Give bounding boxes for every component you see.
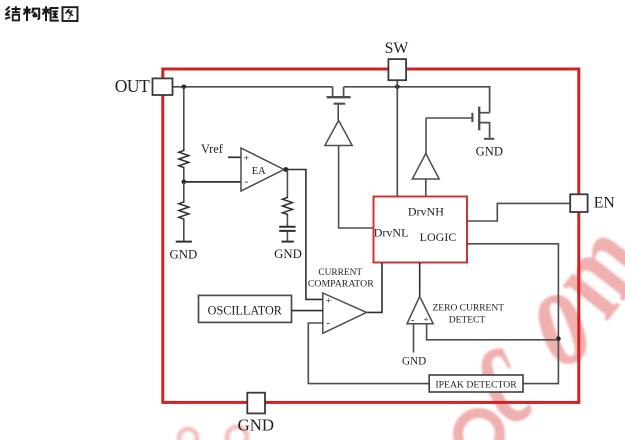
- svg-text:-: -: [326, 317, 330, 329]
- svg-text:+: +: [244, 153, 250, 164]
- wire OUT rail: [173, 86, 333, 88]
- svg-text:DETECT: DETECT: [449, 315, 486, 325]
- wire divider from OUT: [183, 87, 185, 149]
- wire DrvNL: [339, 146, 374, 229]
- svg-text:OUT: OUT: [115, 76, 150, 96]
- title 结构框图 (hand drawn): [5, 6, 77, 21]
- op-amp U1 EA: [241, 148, 284, 191]
- wire EA out: [284, 170, 323, 300]
- svg-text:SW: SW: [385, 40, 409, 57]
- svg-text:EA: EA: [252, 166, 266, 177]
- wire EN lower / right net: [467, 244, 558, 384]
- red border frame: [163, 69, 579, 402]
- resistor R1: [179, 149, 189, 170]
- svg-text:+: +: [424, 315, 429, 325]
- wire U5 plus: [427, 324, 559, 340]
- wire U3 input: [425, 179, 427, 197]
- node EA out: [284, 167, 289, 172]
- svg-text:EN: EN: [594, 194, 616, 211]
- wire OSC to comparator: [292, 310, 323, 312]
- wire R1 to node: [183, 169, 185, 182]
- svg-text:-: -: [245, 176, 249, 188]
- box OSCILLATOR: [199, 295, 292, 322]
- node right net junction: [556, 336, 561, 341]
- wire node to R2: [183, 182, 185, 201]
- svg-text:COMPARATOR: COMPARATOR: [308, 278, 374, 289]
- op-amp U4 current comparator: [323, 293, 367, 333]
- wire zero current output up to LOGIC: [419, 263, 421, 297]
- ground Q2: [484, 138, 494, 140]
- op-amp U5 zero current: [407, 296, 433, 323]
- pin EN square: [570, 194, 587, 212]
- svg-text:GND: GND: [274, 247, 302, 261]
- op-amp U3 driver (DrvNH buffer): [412, 154, 439, 180]
- svg-text:DrvNH: DrvNH: [408, 204, 444, 218]
- watermark small blob 2: [227, 427, 247, 440]
- wire FB to EA: [184, 181, 241, 183]
- svg-text:GND: GND: [476, 145, 503, 159]
- svg-text:ZERO CURRENT: ZERO CURRENT: [433, 304, 505, 314]
- svg-text:Vref: Vref: [201, 142, 224, 156]
- wire comp net: [286, 170, 288, 197]
- svg-text:IPEAK DETECTOR: IPEAK DETECTOR: [435, 380, 517, 391]
- node FB: [182, 180, 187, 185]
- capacitor C1: [279, 227, 295, 231]
- pin SW square: [388, 59, 406, 80]
- wire R2 to ground: [183, 221, 185, 241]
- box IPEAK DETECTOR: [429, 375, 523, 392]
- svg-text:OSCILLATOR: OSCILLATOR: [208, 303, 283, 317]
- wire comparator output up to LOGIC: [367, 263, 383, 313]
- transistor Q1 (high-side NMOS in rail): [327, 87, 351, 121]
- wire rail right of Q1 to SW and corner: [344, 87, 490, 113]
- svg-text:GND: GND: [238, 415, 274, 434]
- watermark small blob 1: [179, 429, 197, 440]
- wire C1 to ground: [286, 232, 288, 241]
- ground comp net: [282, 241, 294, 243]
- svg-text:DrvNL: DrvNL: [374, 226, 409, 240]
- pin OUT square: [153, 78, 173, 95]
- op-amp U2 driver (DrvNL buffer): [325, 120, 352, 145]
- svg-text:LOGIC: LOGIC: [420, 230, 457, 244]
- box LOGIC (red): [374, 197, 468, 263]
- svg-text:CURRENT: CURRENT: [318, 268, 362, 278]
- svg-text:+: +: [326, 296, 332, 307]
- svg-text:GND: GND: [402, 356, 426, 368]
- resistor R3: [282, 196, 292, 216]
- watermark blob arc: [458, 413, 500, 440]
- wire EN upper: [467, 203, 570, 221]
- node OUT junction: [182, 85, 187, 90]
- transistor Q2 (low-side NMOS): [426, 107, 490, 154]
- wire U5 minus to gnd: [413, 324, 415, 353]
- ground divider: [176, 241, 192, 243]
- pin GND square: [247, 393, 265, 414]
- wire R3 to C1: [286, 216, 288, 227]
- wire SW net down to LOGIC: [396, 80, 398, 196]
- wire comparator minus to ipeak: [308, 323, 429, 384]
- resistor R2: [179, 201, 189, 221]
- wire Vref: [228, 156, 241, 158]
- svg-text:GND: GND: [170, 248, 198, 262]
- node SW junction: [395, 85, 400, 90]
